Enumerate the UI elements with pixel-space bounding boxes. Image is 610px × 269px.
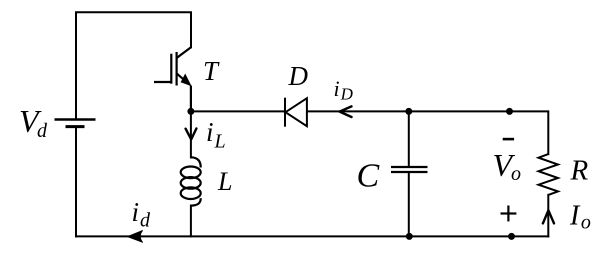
node B top capacitor junction [405,108,412,115]
wire left vertical lower [75,127,77,237]
arrow iD current [340,106,352,117]
inductor L coil [181,157,201,205]
arrow id current [128,231,143,243]
resistor R zigzag [539,154,559,195]
arrow Io current [543,210,554,223]
wire resistor bottom to rail [547,195,549,237]
node A junction transistor-inductor-diode [187,108,194,115]
transistor T (IGBT) [154,47,191,111]
svg-text:C: C [357,158,380,195]
wire capacitor branch bottom [408,172,410,236]
wire capacitor branch top [408,111,410,167]
label plus polarity [501,206,517,222]
arrow iL current [186,129,197,140]
diode D [285,98,307,127]
wire inductor branch upper [190,111,192,157]
wire bottom rail [76,235,548,237]
svg-text:L: L [217,167,232,196]
capacitor C plates [391,167,428,172]
svg-text:R: R [570,155,589,187]
svg-text:T: T [203,56,220,86]
node C-top output terminal minus [506,108,513,115]
transistor T emitter arrowhead [181,74,192,87]
node E output terminal plus [508,233,515,240]
battery Vd source [55,120,96,127]
wire main horizontal node to diode [191,110,285,112]
wire top rail [76,12,191,119]
node D-bottom capacitor junction [406,233,413,240]
label minus polarity [503,138,514,141]
wire inductor branch lower [190,206,192,237]
svg-text:D: D [288,61,309,91]
wire diode to right corner [307,111,548,154]
